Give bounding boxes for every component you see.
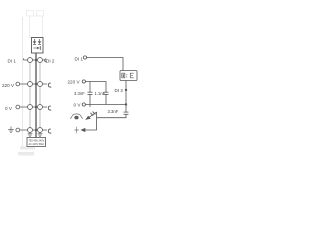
clamp symbol row 4 [48,129,51,133]
row 1 DI wire [24,58,47,62]
row 3 0V wire [20,106,47,108]
ground symbol under terminal 8 [38,133,43,137]
svg-text:DI 1: DI 1 [8,59,17,64]
svg-text:3.3nF: 3.3nF [74,91,85,96]
terminal jumper wire left column [29,62,31,128]
label DI 2 (module) [46,58,55,63]
module housing bottom foot [18,146,35,156]
wire 0V horizontal [85,104,126,106]
label 0 V [5,106,13,111]
svg-text:DI 1: DI 1 [75,56,84,61]
junction row 2 [35,83,37,85]
terminal 6 (220V) [38,82,43,87]
wire DI1 horizontal [87,58,123,71]
terminal 5 (DI 2) [38,58,43,63]
module center bus wire [35,53,37,138]
node circle 0 V left [16,105,20,109]
svg-text:220 V: 220 V [2,83,15,88]
node circle earth left [16,128,20,132]
svg-text:0 V: 0 V [74,103,82,108]
module type box [27,138,46,147]
terminal 7 (0V) [38,105,43,110]
terminal 2 (220V) [28,82,33,87]
rail contact arrow [85,112,97,120]
svg-text:AC 240V 50Hz: AC 240V 50Hz [29,142,45,146]
module housing top tab [30,16,43,38]
label DI 1 [8,59,17,64]
ground symbol under terminal 4 [28,133,33,137]
capacitor C1 3.3nF [88,82,93,108]
svg-text:DI 2: DI 2 [115,88,124,93]
node DI 1 (schematic) [75,56,87,61]
svg-text:0 V: 0 V [5,106,13,111]
opto-isolator block U2 [120,71,137,81]
row 4 earth wire [20,129,47,131]
junction row 1 [35,59,37,61]
LED 1 symbol [33,39,36,45]
svg-text:3.3nF: 3.3nF [108,109,119,114]
clamp symbol row 3 [48,106,51,110]
capacitor C2 1.1nF [104,92,109,104]
svg-text:DI 2: DI 2 [46,58,55,63]
terminal 3 (0V) [28,105,33,110]
LED 2 symbol [38,39,41,45]
ground symbol left label [8,127,14,133]
svg-text:1.1nF: 1.1nF [95,91,106,96]
module housing top data contacts [27,11,44,17]
terminal jumper wire right column [39,62,41,128]
earth drop wire [85,112,97,130]
label 3.3nF C1 [74,91,85,96]
label 220 V [2,83,15,88]
node DI 2 (schematic) [115,88,128,93]
data direction arrow in LED box [34,46,41,50]
label 3.3nF C3 [108,109,119,114]
junction row 4 [35,129,37,131]
capacitor C3 3.3nF [124,112,129,118]
node 0 V (schematic) [74,103,86,108]
terminal 4 (earth) [28,128,33,133]
junction row 3 [35,106,37,108]
label 1.1nF C2 [95,91,106,96]
node circle 220 V left [16,82,20,86]
module housing left edge [22,17,24,148]
terminal 1 (DI 1) [28,58,33,63]
opto-isolator internals [122,73,134,78]
DIN rail symbol [70,114,83,119]
node 220 V (schematic) [68,80,86,85]
earth bus wire [97,117,127,119]
LED box U1 [32,38,44,54]
row 2 220V wire [20,83,47,85]
svg-text:220 V: 220 V [68,80,81,85]
clamp symbol row 2 [48,83,51,87]
wire from block down [125,81,127,113]
arrow to module earth [75,127,86,133]
terminal 8 (earth) [38,128,43,133]
wire 220V horizontal [85,82,106,93]
junction 0V / DI line [125,103,127,105]
